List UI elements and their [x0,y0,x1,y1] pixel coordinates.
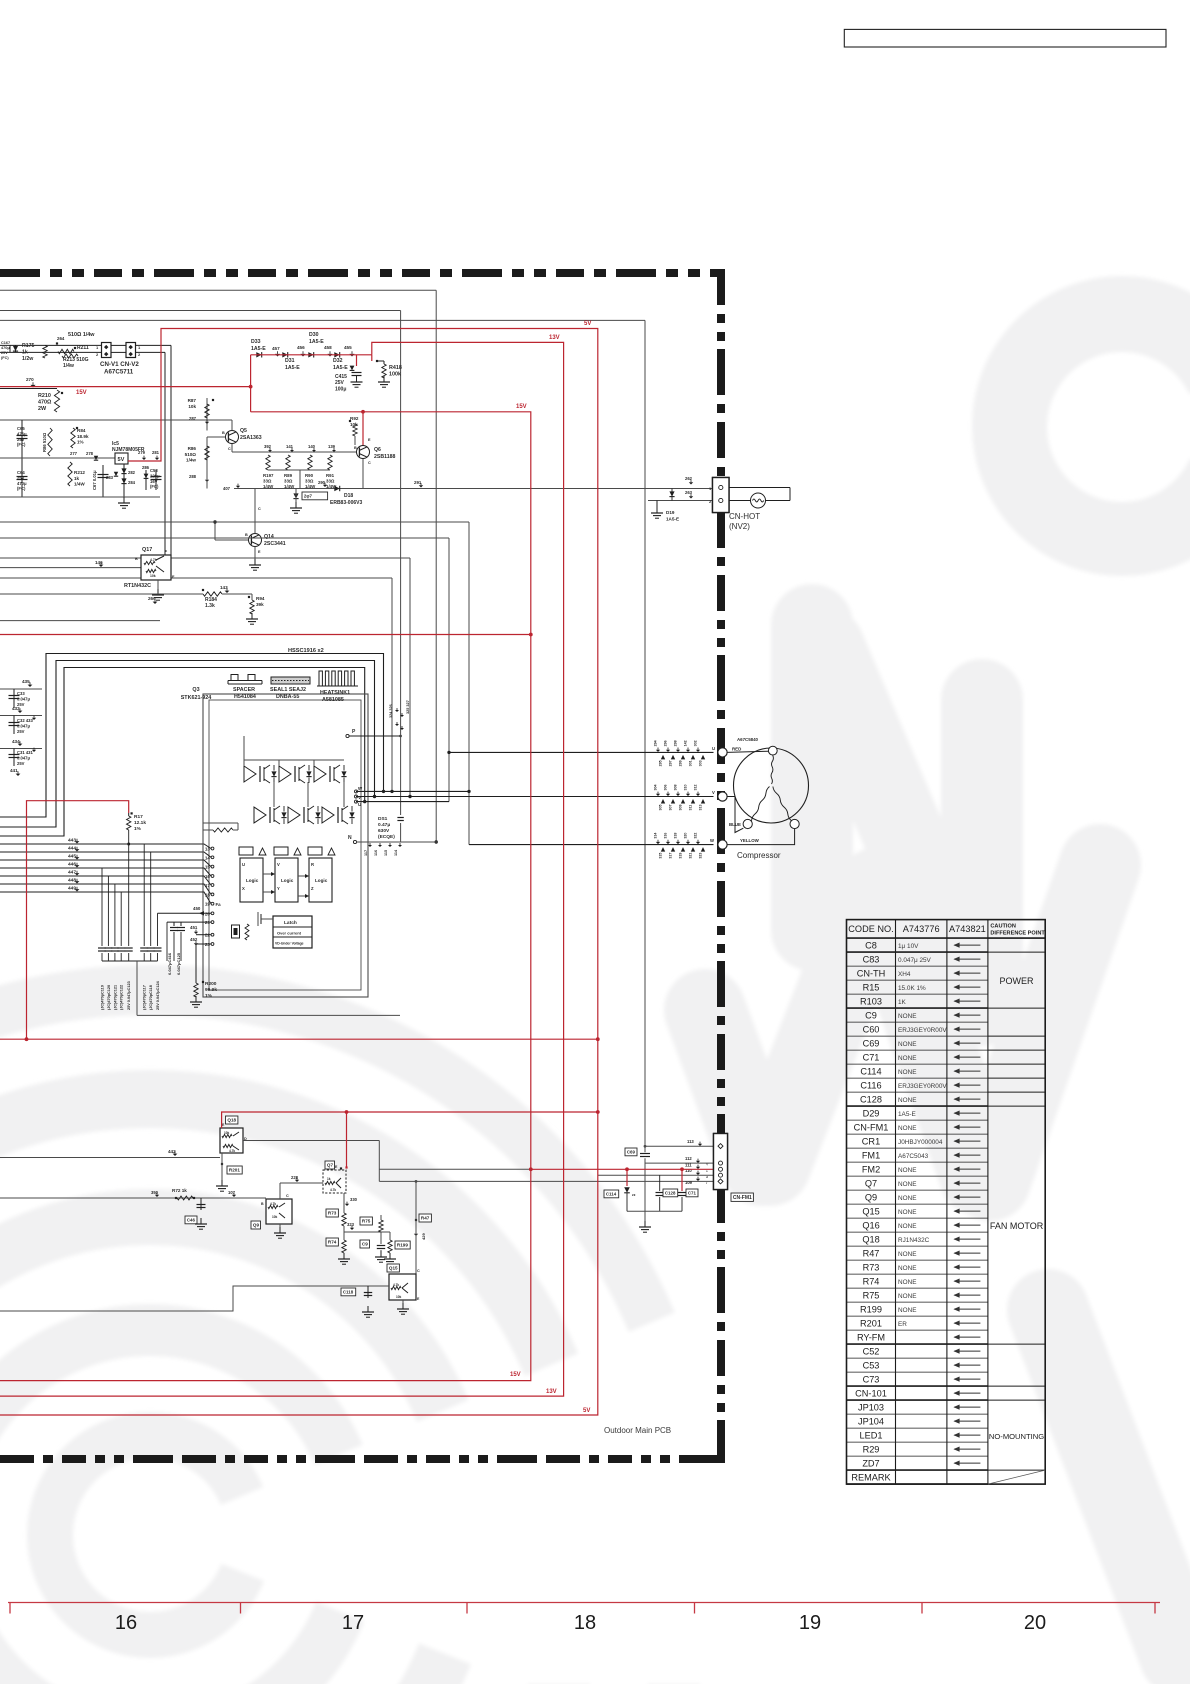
wire row F R184 [0,593,203,595]
svg-text:(FC): (FC) [1,356,9,360]
svg-text:CR1: CR1 [862,1137,880,1147]
resistor R87 [188,398,215,431]
svg-text:1%: 1% [205,993,213,999]
label 15V mid [516,404,527,410]
svg-text:350: 350 [151,1190,159,1195]
svg-text:NONE: NONE [898,1195,916,1202]
latch block [273,916,312,948]
red net 15V diode chain [251,354,372,356]
svg-text:282: 282 [128,470,136,475]
svg-text:NONE: NONE [898,1041,916,1048]
svg-text:R199: R199 [397,1243,408,1248]
svg-text:C116: C116 [860,1081,881,1091]
label Outdoor Main PCB [604,1426,671,1435]
svg-text:B: B [135,557,138,561]
svg-text:ERJ3GEY0R00V: ERJ3GEY0R00V [898,1083,947,1090]
svg-text:443: 443 [68,838,76,844]
svg-text:113: 113 [687,1139,694,1144]
node 262 [685,476,693,485]
ground Q15 [397,1300,409,1314]
svg-text:2SB1188: 2SB1188 [374,454,395,460]
svg-text:319: 319 [679,853,683,859]
wire CN-V2 drop to Q17 [165,345,171,555]
svg-text:434: 434 [12,739,20,744]
svg-text:15V: 15V [516,404,527,410]
svg-text:R87: R87 [188,398,197,403]
svg-text:R: R [311,862,314,867]
svg-text:NONE: NONE [898,1223,916,1230]
transistor Q5 [207,420,262,451]
svg-text:Q7: Q7 [327,1163,334,1168]
svg-text:33Ω: 33Ω [305,479,314,484]
wire pin20 [158,912,212,914]
svg-text:33Ω: 33Ω [326,479,335,484]
red net 15V left [0,355,253,412]
svg-text:1.3k: 1.3k [205,603,215,609]
node V out [355,795,362,800]
svg-text:B: B [222,431,225,435]
node 450 [193,906,204,916]
svg-text:Q7: Q7 [865,1179,877,1189]
node P [346,729,402,738]
svg-text:0.047μC416: 0.047μC416 [167,952,172,975]
svg-text:270: 270 [26,377,34,382]
svg-text:470μ: 470μ [17,481,27,486]
svg-text:1k: 1k [327,1177,331,1181]
svg-text:0.047μ 25V: 0.047μ 25V [898,957,932,964]
svg-text:JP103: JP103 [858,1403,884,1413]
svg-text:NO-MOUNTING: NO-MOUNTING [989,1432,1044,1441]
svg-text:2SC3441: 2SC3441 [264,541,286,547]
svg-text:C67 0.01μ: C67 0.01μ [92,470,97,490]
resistor R175 [22,343,47,362]
svg-text:FM2: FM2 [862,1165,880,1175]
svg-text:FAN MOTOR: FAN MOTOR [990,1221,1044,1231]
svg-text:630V: 630V [378,828,390,834]
svg-text:39k: 39k [256,602,264,607]
wire bottom bus [137,1014,400,1016]
svg-text:1/2w: 1/2w [22,356,34,362]
svg-text:114: 114 [394,849,398,856]
capacitor C65 [17,420,28,497]
resistor R213 [62,354,89,369]
svg-text:NONE: NONE [898,1265,916,1272]
svg-text:C69: C69 [627,1149,636,1154]
svg-text:321: 321 [689,853,693,859]
logic block U [239,847,266,902]
svg-text:(JC)470pC118: (JC)470pC118 [149,985,153,1010]
svg-text:C58: C58 [150,468,158,473]
diode D18 [330,486,362,506]
svg-text:R47: R47 [863,1249,880,1259]
svg-text:FM1: FM1 [862,1151,880,1161]
wire to CN-HOT [234,488,714,490]
svg-text:D31: D31 [285,358,295,364]
ruler number 20 [1024,1612,1046,1634]
svg-text:325 327: 325 327 [406,700,410,714]
svg-text:310: 310 [684,785,688,791]
svg-text:R74: R74 [328,1240,337,1245]
svg-text:SPACER: SPACER [233,687,255,693]
label RT1N432C [124,583,151,589]
resistor R89 [284,455,295,489]
svg-text:2W: 2W [38,406,47,412]
wire ground bus 497 [0,496,160,498]
svg-text:XH4: XH4 [898,971,911,978]
connector CN-HOT [709,478,729,513]
capacitor C415 [335,366,363,393]
svg-text:1/4W: 1/4W [74,482,85,487]
svg-text:C9: C9 [865,1011,877,1021]
node 291 [414,480,423,488]
svg-text:(FC): (FC) [150,484,159,489]
svg-text:297: 297 [669,760,673,766]
hybrid IC outline Q3 [203,694,368,997]
thermal protector [729,488,790,509]
ruler number 17 [342,1612,364,1634]
label A67C5840 [737,737,759,742]
svg-text:R94: R94 [256,596,265,601]
capacitor C46 [185,1198,207,1229]
capacitor C58 [144,468,162,490]
svg-text:V: V [712,790,715,795]
svg-text:CN-TH: CN-TH [857,969,886,979]
wire W to compressor [356,791,714,844]
connector CN-FM1 body over border [714,1134,728,1190]
label 15V top left [76,390,87,396]
svg-text:CN-FM1: CN-FM1 [733,1195,752,1201]
svg-text:POWER: POWER [1000,976,1035,986]
svg-text:10k: 10k [150,574,156,578]
wire nested bus 2 [0,661,376,828]
svg-text:Q5: Q5 [240,428,247,434]
svg-text:(FC): (FC) [17,486,26,491]
svg-text:446: 446 [68,862,76,868]
transistor Q17 [135,547,175,580]
red drop C71 [681,1169,683,1191]
resistor R84 [71,427,89,448]
ruler line [8,1602,1160,1604]
svg-text:C71: C71 [688,1190,697,1195]
svg-text:140: 140 [308,444,316,449]
node 323 [347,1222,355,1230]
compressor motor [734,746,809,828]
capacitor C32 [9,716,37,735]
svg-text:296: 296 [664,740,668,746]
svg-text:287: 287 [189,416,197,421]
svg-text:R90: R90 [305,473,314,478]
svg-text:Fa: Fa [216,902,222,907]
wire terminal W to motor [727,829,795,845]
svg-text:R86: R86 [188,446,197,451]
svg-text:(JC)470pC120: (JC)470pC120 [107,985,111,1010]
svg-text:R200: R200 [205,981,217,987]
svg-text:10k: 10k [272,1215,278,1219]
resistor R75 [360,1215,383,1232]
svg-text:N: N [348,835,352,841]
wire row 458 [0,457,115,459]
svg-text:R201: R201 [860,1319,882,1329]
wire bus drop W [467,522,470,845]
svg-text:323: 323 [699,853,703,859]
capacitor bank [98,844,162,1015]
svg-text:4.7k: 4.7k [393,1283,399,1287]
svg-text:R47: R47 [421,1216,430,1221]
resistor R94 [246,594,265,624]
svg-text:R103: R103 [860,997,882,1007]
svg-text:R86 510Ω: R86 510Ω [42,432,47,452]
svg-text:33Ω: 33Ω [263,479,272,484]
svg-text:NONE: NONE [898,1125,916,1132]
nodes 324-327 [389,700,410,730]
resistor R418 [376,360,402,387]
red branch fan Q18 [222,1110,598,1128]
title box [844,29,1166,47]
svg-text:D19: D19 [666,510,675,515]
label 13V top [549,335,560,341]
svg-text:H541084: H541084 [234,694,256,700]
svg-text:NONE: NONE [898,1055,916,1062]
svg-text:C60: C60 [863,1025,880,1035]
svg-text:99.9k: 99.9k [205,987,217,993]
resistor R212 [68,462,86,487]
svg-text:0.047μ: 0.047μ [17,755,30,760]
svg-text:295: 295 [659,760,663,766]
svg-text:Compressor: Compressor [737,851,781,860]
svg-text:Q15: Q15 [389,1266,398,1271]
resistor R73 [326,1209,346,1226]
svg-text:d: d [706,1175,708,1179]
wire row 420 [0,419,232,421]
red branch R17 [25,801,129,1041]
IGBT V low [288,806,321,824]
label YELLOW [740,838,760,843]
svg-text:15V: 15V [510,1372,521,1378]
svg-text:R84: R84 [77,428,86,433]
node 270 [0,377,57,389]
svg-text:15V: 15V [76,390,87,396]
svg-text:16: 16 [115,1612,137,1634]
svg-text:13V: 13V [549,335,560,341]
svg-text:D33: D33 [251,339,261,345]
svg-text:445: 445 [68,854,76,860]
node 458 [324,345,333,357]
diode cluster U [654,740,706,766]
svg-text:447: 447 [68,870,76,876]
wire terminal U to motor [727,751,768,752]
red branch Q6 [361,410,365,445]
svg-text:CN-101: CN-101 [855,1389,887,1399]
resistor R86b [185,437,210,466]
svg-text:DNBA-55: DNBA-55 [276,694,299,700]
svg-text:A743776: A743776 [903,924,940,934]
resistor R210 [38,390,63,412]
svg-text:A743821: A743821 [949,924,986,934]
label Fa [216,902,222,907]
diode D32 [333,352,348,371]
svg-text:U: U [242,862,245,867]
svg-text:Q18: Q18 [227,1118,236,1123]
capacitor C69 [625,1148,650,1157]
wire V to compressor [356,796,714,798]
node 455 [344,345,355,357]
svg-text:R89: R89 [284,473,293,478]
svg-text:(JC)470pC117: (JC)470pC117 [143,985,147,1010]
svg-text:324 326: 324 326 [389,704,393,718]
capacitor C118 [341,1286,374,1317]
svg-text:141: 141 [286,444,294,449]
svg-text:19: 19 [205,902,211,907]
capacitor C128 [656,1175,678,1211]
svg-text:C65: C65 [17,426,25,431]
node 350 [151,1190,159,1197]
svg-text:286: 286 [142,465,150,470]
svg-text:262: 262 [685,476,693,481]
svg-text:CAUTION: CAUTION [990,924,1015,930]
ground Q14 [249,547,261,571]
node 330 [345,1197,358,1206]
red branch 634 [0,634,531,636]
svg-text:R75: R75 [362,1219,371,1224]
IGBT V high [279,765,312,783]
svg-text:457: 457 [272,346,280,351]
svg-text:456: 456 [297,345,305,350]
svg-text:R72 1k: R72 1k [172,1188,187,1193]
svg-text:NONE: NONE [898,1209,916,1216]
svg-text:A67C5711: A67C5711 [104,369,134,376]
svg-text:510Ω 1/4w: 510Ω 1/4w [68,332,95,338]
svg-text:Outdoor Main PCB: Outdoor Main PCB [604,1426,671,1435]
svg-text:25V 0.047μC123: 25V 0.047μC123 [127,981,131,1010]
svg-text:299: 299 [679,760,683,766]
resistor R184 [202,589,252,609]
svg-text:C71: C71 [863,1053,880,1063]
wire bus row V [0,557,410,559]
diode D33 [251,339,266,358]
svg-text:4.7k: 4.7k [270,1202,276,1206]
svg-text:115: 115 [384,850,388,856]
red net 5V [0,329,600,1416]
svg-text:111: 111 [685,1163,692,1168]
svg-text:STK621-924: STK621-924 [181,695,212,701]
wire bus row U [0,537,449,539]
svg-text:Ic5: Ic5 [112,441,119,447]
wire Q17 input [0,567,141,569]
node 143 [220,585,229,593]
svg-text:R75: R75 [863,1291,880,1301]
svg-text:12.1k: 12.1k [134,820,146,826]
svg-text:(NV2): (NV2) [729,522,750,531]
svg-text:10k: 10k [188,404,196,409]
svg-text:A581085: A581085 [322,697,344,703]
svg-text:NONE: NONE [898,1307,916,1314]
svg-text:C83: C83 [863,955,880,965]
PCB dashed border [0,269,725,1463]
svg-text:DIFFERENCE POINT: DIFFERENCE POINT [990,931,1045,937]
svg-text:0.047μ: 0.047μ [17,696,30,701]
fet latch [258,912,273,926]
svg-text:312: 312 [694,785,698,791]
transistor Q15 [387,1264,420,1301]
resistor latch [245,924,249,940]
svg-text:U: U [358,802,361,807]
svg-text:R91: R91 [326,473,335,478]
svg-text:R199: R199 [860,1305,882,1315]
compressor terminals over border [718,748,727,757]
svg-text:VD-Under Voltage: VD-Under Voltage [275,942,304,946]
svg-text:HEATSINK1: HEATSINK1 [320,690,350,696]
diode D31 [282,352,300,371]
svg-text:301: 301 [689,760,693,766]
node 432 [0,706,42,716]
node 452 [190,937,198,946]
svg-text:25V: 25V [17,437,25,442]
node 451 [190,925,198,934]
wire pin110 [598,1168,714,1175]
svg-text:288: 288 [189,474,197,479]
IGBT U low [254,806,287,824]
capacitor C31 [9,748,37,766]
svg-text:R175: R175 [22,343,35,349]
svg-text:284: 284 [128,480,136,485]
svg-text:SEAL1 SEAJ2: SEAL1 SEAJ2 [270,687,306,693]
caps C416 C125 [167,922,185,975]
label Q3 STK621-924 [181,687,212,701]
node 456 [297,345,306,357]
svg-text:Z: Z [311,886,314,891]
svg-text:450: 450 [193,906,201,911]
svg-text:C8: C8 [865,941,877,951]
svg-text:C128: C128 [665,1190,676,1195]
svg-text:392: 392 [264,444,272,449]
wire top bus 2 [0,319,645,321]
red net 13V [0,342,564,1396]
wire fan input B [0,1286,389,1311]
red net FM 15V [531,1167,714,1171]
wire Q18 out [243,1141,379,1182]
diode D19 [651,501,679,522]
capacitor C9 [360,1232,387,1262]
nodes 117-114 [364,843,402,856]
seal part [270,677,310,700]
resistor bootstrap [203,823,238,858]
svg-text:R212: R212 [74,470,85,475]
ruler number 19 [799,1612,821,1634]
svg-text:Y: Y [277,886,280,891]
logic block V [274,847,301,902]
wire cap bus [627,1211,682,1221]
svg-text:NONE: NONE [898,1251,916,1258]
svg-text:290: 290 [318,480,326,485]
svg-text:Q14: Q14 [264,534,274,540]
wire CN-V input 2 [0,351,165,353]
wire bus drop U [447,538,450,802]
label BLUE [729,822,741,827]
wire nested bus 3 [0,668,366,837]
resistor R197 [263,455,274,489]
svg-text:303: 303 [699,760,703,766]
resistor R92 [349,416,359,445]
zener diode D left [13,345,18,352]
svg-text:Latch: Latch [284,920,297,926]
wire bus drop V [408,558,411,798]
svg-text:Q17: Q17 [142,547,152,553]
wire gray to 15V junction [379,1168,531,1170]
svg-text:(JC)470pC119: (JC)470pC119 [101,985,105,1010]
transistor Q9 [251,1194,292,1229]
wire nested bus 1 [0,654,385,818]
svg-text:R73: R73 [328,1211,337,1216]
